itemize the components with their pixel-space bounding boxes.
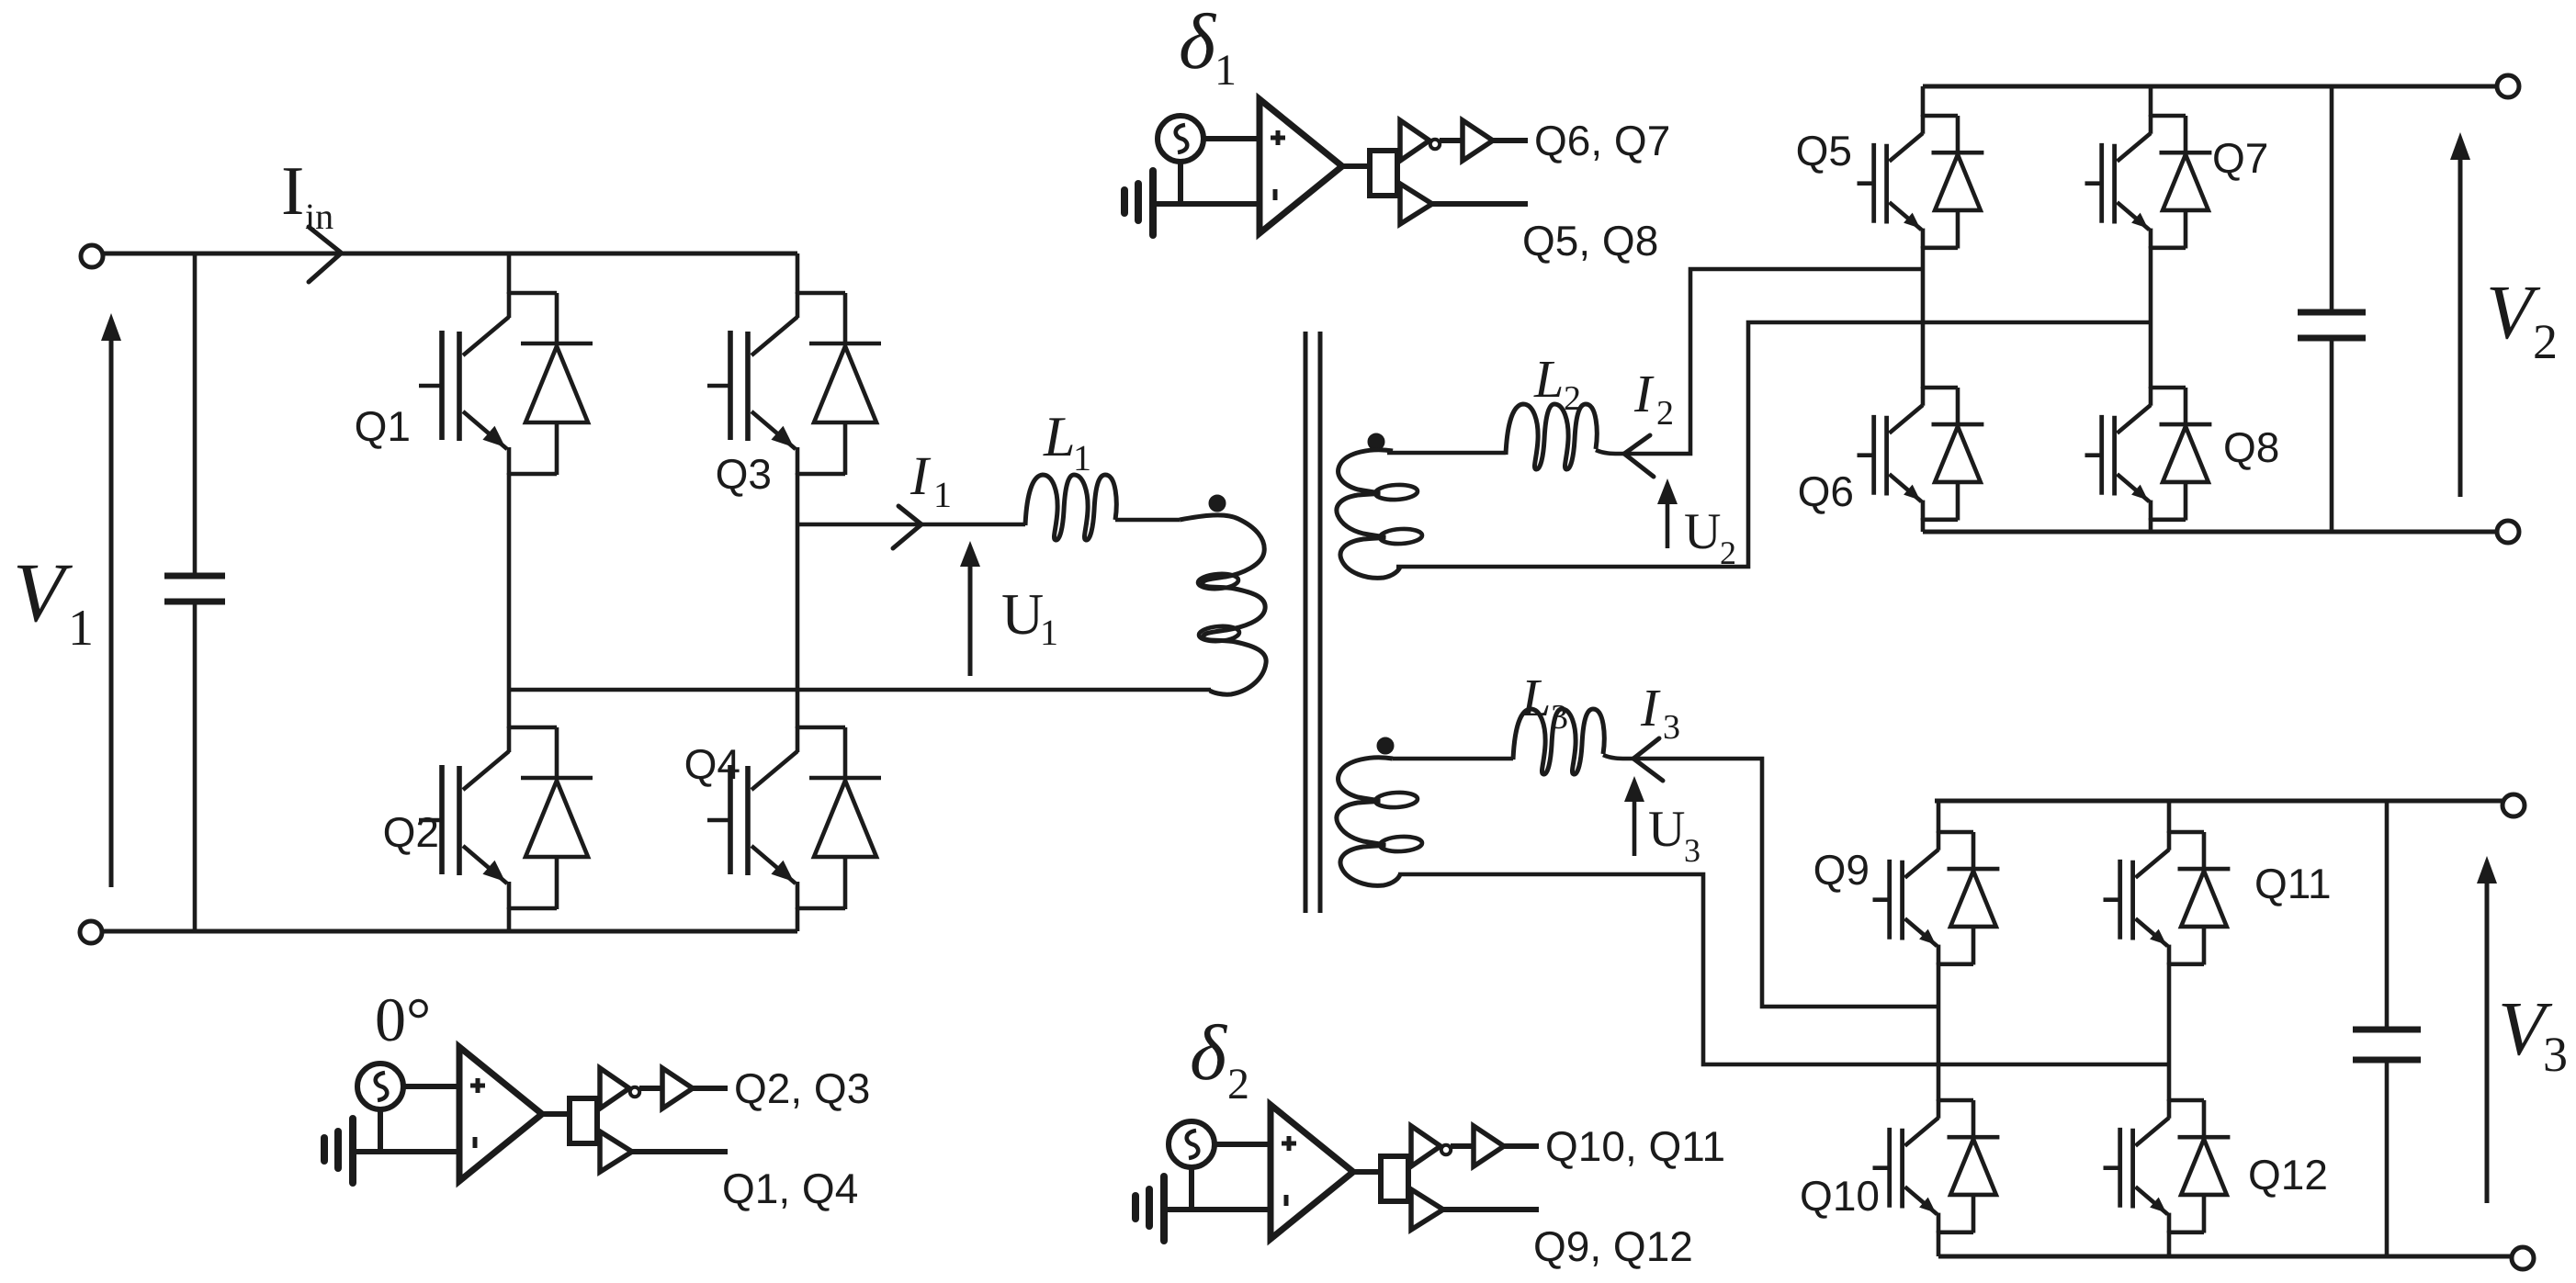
inverter bubble [1441, 1145, 1451, 1154]
wire bubble to second buffer [1440, 138, 1463, 143]
label L3 [1520, 668, 1568, 737]
svg-text:I: I [1640, 678, 1661, 737]
op-amp comparator [1260, 99, 1342, 233]
op-amp comparator [459, 1047, 542, 1181]
svg-text:Q10: Q10 [1800, 1172, 1880, 1220]
svg-text:1: 1 [1073, 437, 1091, 478]
arrow V1 [101, 313, 121, 887]
wire secondary2 bottom to bridge2 right leg [1396, 322, 2151, 567]
wire top bus V1 side [102, 252, 797, 256]
wire secondary2 top to L2 [1387, 451, 1506, 456]
secondary winding 2 [1337, 450, 1400, 579]
driver 0deg sine source [357, 1064, 403, 1109]
wire bubble to second buffer [639, 1086, 662, 1091]
driver delta2 sine source [1169, 1121, 1215, 1167]
buffer (top, first) [1400, 120, 1429, 161]
arrow U2 [1657, 478, 1678, 548]
wire ground to op-amp - input [1153, 201, 1260, 207]
polarity dot secondary 2 [1368, 433, 1384, 450]
buffer (top, second) [1474, 1126, 1504, 1166]
wire source to op-amp + input [403, 1084, 459, 1089]
primary winding small loop 1 [1197, 572, 1238, 590]
wire top bus V3 [1935, 799, 2504, 804]
svg-text:Q6, Q7: Q6, Q7 [1534, 117, 1670, 164]
wire bridge3 left leg top [1937, 801, 1941, 833]
svg-text:δ: δ [1179, 0, 1217, 85]
svg-text:U: U [1648, 801, 1685, 858]
wire phase B to L1 (I1 wire) [797, 523, 1025, 527]
inductor L1 [1025, 475, 1116, 540]
inductor L3 [1513, 709, 1604, 774]
svg-text:1: 1 [1215, 46, 1237, 95]
label V1 [13, 546, 94, 657]
svg-text:Q1, Q4: Q1, Q4 [722, 1165, 858, 1212]
arrow Iin on top bus [309, 227, 341, 282]
svg-text:3: 3 [1663, 708, 1680, 747]
capacitor C3 [2353, 801, 2421, 1256]
primary winding small loop 2 [1198, 625, 1239, 642]
wire to Q5, Q8 [1432, 201, 1528, 207]
buffer (bottom) [1400, 184, 1432, 224]
capacitor C1 [164, 253, 225, 931]
svg-text:Q2: Q2 [383, 808, 439, 856]
wire source to ground [1189, 1167, 1194, 1210]
ground [1149, 171, 1157, 235]
wire op-amp output [542, 1111, 571, 1117]
wire source to op-amp + input [1203, 136, 1260, 141]
svg-text:U: U [1684, 503, 1721, 560]
wire bridge2 right leg mid [2149, 246, 2153, 388]
driver delta1 sine source [1158, 116, 1203, 162]
wire bridge2 left leg mid [1921, 246, 1926, 388]
wire right leg top (bus to Q3) [796, 253, 800, 294]
wire left leg top (bus to Q1) [507, 253, 512, 294]
wire ground to op-amp - input [1164, 1207, 1271, 1212]
transistor Q9 (IGBT with antiparallel diode) [1873, 831, 2000, 965]
svg-text:2: 2 [2533, 314, 2558, 369]
wire right leg mid (Q3 to Q4) [796, 473, 800, 728]
label Iin [281, 152, 333, 237]
transistor Q1 (IGBT with antiparallel diode) [419, 292, 593, 475]
svg-text:I: I [1633, 364, 1655, 423]
svg-text:Q11: Q11 [2254, 860, 2332, 907]
arrow I1 [893, 506, 921, 548]
label I2 [1633, 364, 1674, 433]
arrow U1 [960, 541, 980, 676]
wire bottom bus V2 [1923, 530, 2497, 535]
wire bridge3 left leg bottom [1937, 1231, 1941, 1256]
transistor Q11 (IGBT with antiparallel diode) [2104, 831, 2231, 965]
svg-text:L: L [1533, 349, 1564, 409]
wire op-amp output [1353, 1169, 1382, 1175]
primary winding [1180, 515, 1266, 694]
svg-text:1: 1 [1040, 612, 1058, 653]
buffer (top, second) [662, 1068, 693, 1109]
wire left leg mid (Q1 to Q2) [507, 473, 512, 728]
wire right leg bottom (Q4 to bus) [796, 907, 800, 931]
svg-text:U: U [1001, 581, 1044, 647]
buffer (top, second) [1463, 120, 1493, 161]
secondary winding 3 [1337, 758, 1400, 886]
driver block [1370, 151, 1397, 196]
label L1 [1043, 406, 1091, 478]
terminal V2 top [2497, 75, 2519, 97]
svg-text:Q5, Q8: Q5, Q8 [1522, 217, 1658, 264]
svg-text:Q4: Q4 [684, 740, 740, 788]
label U3 [1648, 801, 1700, 869]
terminal V2 bottom [2497, 521, 2519, 543]
svg-text:in: in [305, 196, 333, 237]
wire bridge2 left leg top [1921, 86, 1926, 117]
svg-text:Q5: Q5 [1796, 127, 1852, 174]
secondary winding 2 small loop 1 [1375, 484, 1418, 501]
transistor Q12 (IGBT with antiparallel diode) [2104, 1099, 2231, 1233]
inverter bubble [630, 1087, 639, 1097]
label V3 [2498, 986, 2568, 1082]
label delta2 [1190, 1008, 1249, 1109]
secondary winding 3 small loop 1 [1375, 792, 1418, 808]
arrow I2 [1624, 435, 1654, 477]
wire L2 to bridge2 left leg (I2 wire) [1596, 269, 1923, 454]
ground [1160, 1176, 1168, 1241]
svg-text:2: 2 [1227, 1060, 1249, 1109]
wire bridge3 left leg mid [1937, 962, 1941, 1101]
transistor Q4 (IGBT with antiparallel diode) [707, 726, 881, 909]
wire top bus V2 [1923, 84, 2499, 89]
transistor Q2 (IGBT with antiparallel diode) [419, 726, 593, 909]
wire secondary3 top to L3 [1393, 757, 1513, 761]
label I1 [910, 445, 952, 515]
inductor L2 [1506, 404, 1597, 469]
arrow U3 [1624, 776, 1644, 856]
svg-text:δ: δ [1190, 1008, 1228, 1097]
buffer (bottom) [600, 1131, 632, 1172]
wire to Q2, Q3 [693, 1086, 728, 1091]
wire source to ground [378, 1109, 383, 1152]
op-amp comparator [1271, 1105, 1353, 1239]
svg-text:Q7: Q7 [2212, 134, 2268, 182]
transistor Q5 (IGBT with antiparallel diode) [1858, 115, 1984, 249]
arrow V3 [2477, 856, 2497, 1203]
svg-text:L: L [1520, 668, 1551, 727]
wire bridge2 left leg bottom [1921, 518, 1926, 532]
svg-text:Q9, Q12: Q9, Q12 [1533, 1222, 1693, 1270]
driver block [570, 1098, 597, 1143]
arrow V2 [2450, 132, 2470, 497]
polarity dot primary [1209, 495, 1226, 512]
buffer (bottom) [1411, 1189, 1443, 1230]
label V2 [2486, 270, 2558, 369]
svg-text:Q6: Q6 [1798, 467, 1854, 515]
svg-text:Q12: Q12 [2248, 1151, 2328, 1199]
transistor Q6 (IGBT with antiparallel diode) [1858, 387, 1984, 521]
wire to Q1, Q4 [632, 1149, 728, 1154]
wire ground to op-amp - input [353, 1149, 459, 1154]
svg-text:2: 2 [1564, 379, 1581, 418]
terminal input bottom-left [80, 921, 102, 943]
transistor Q10 (IGBT with antiparallel diode) [1873, 1099, 2000, 1233]
label L2 [1533, 349, 1581, 418]
buffer (top, first) [1411, 1126, 1441, 1166]
wire to Q10, Q11 [1504, 1143, 1539, 1149]
driver block [1381, 1156, 1408, 1201]
label U2 [1684, 503, 1736, 571]
svg-text:2: 2 [1656, 394, 1674, 433]
svg-text:Q3: Q3 [716, 450, 772, 498]
transistor Q7 (IGBT with antiparallel diode) [2085, 115, 2212, 249]
wire bottom bus V3 [1938, 1255, 2513, 1259]
wire source to ground [1178, 162, 1183, 204]
wire L1 to primary winding [1115, 518, 1180, 523]
wire bubble to second buffer [1451, 1143, 1474, 1149]
polarity dot secondary 3 [1377, 737, 1394, 754]
svg-text:1: 1 [933, 474, 952, 515]
secondary winding 2 small loop 2 [1380, 528, 1423, 545]
capacitor C2 [2298, 86, 2366, 532]
transformer core [1305, 332, 1320, 913]
label I3 [1640, 678, 1680, 747]
svg-text:0°: 0° [375, 985, 431, 1054]
svg-text:L: L [1043, 406, 1075, 468]
secondary winding 3 small loop 2 [1380, 836, 1423, 852]
wire to Q9, Q12 [1443, 1207, 1539, 1212]
wire bridge3 right leg top [2167, 801, 2172, 833]
wire phase A to primary winding bottom [509, 688, 1211, 692]
terminal V3 bottom [2512, 1247, 2534, 1269]
wire bridge2 right leg bottom [2149, 518, 2153, 532]
wire bridge3 right leg bottom [2167, 1231, 2172, 1256]
svg-text:I: I [281, 152, 304, 230]
wire bottom bus V1 side [101, 929, 797, 934]
svg-text:Q1: Q1 [355, 402, 411, 450]
label U1 [1001, 581, 1058, 653]
svg-text:I: I [910, 445, 932, 506]
wire bridge3 right leg mid [2167, 962, 2172, 1101]
svg-text:V: V [13, 546, 73, 639]
terminal input top-left [81, 245, 103, 267]
arrow I3 [1633, 738, 1663, 781]
wire bridge2 right leg top [2149, 86, 2153, 117]
wire secondary3 bottom to bridge3 right leg [1398, 874, 2169, 1064]
svg-text:Q8: Q8 [2223, 423, 2279, 471]
wire source to op-amp + input [1215, 1142, 1271, 1147]
buffer (top, first) [600, 1068, 629, 1109]
transistor Q8 (IGBT with antiparallel diode) [2085, 387, 2212, 521]
svg-text:1: 1 [68, 600, 94, 657]
svg-text:Q2, Q3: Q2, Q3 [734, 1064, 870, 1112]
inverter bubble [1430, 140, 1440, 149]
ground [349, 1119, 356, 1183]
wire L3 to bridge3 left leg (I3 wire) [1603, 755, 1938, 1007]
transistor Q3 (IGBT with antiparallel diode) [707, 292, 881, 475]
svg-text:3: 3 [1551, 698, 1568, 737]
svg-text:3: 3 [1684, 832, 1700, 869]
wire left leg bottom (Q2 to bus) [507, 907, 512, 931]
terminal V3 top [2503, 794, 2525, 816]
wire to Q6, Q7 [1493, 138, 1528, 143]
svg-text:Q9: Q9 [1813, 846, 1870, 894]
label delta1 [1179, 0, 1237, 95]
svg-text:Q10, Q11: Q10, Q11 [1545, 1122, 1725, 1170]
svg-text:3: 3 [2543, 1027, 2568, 1082]
wire op-amp output [1342, 163, 1371, 169]
